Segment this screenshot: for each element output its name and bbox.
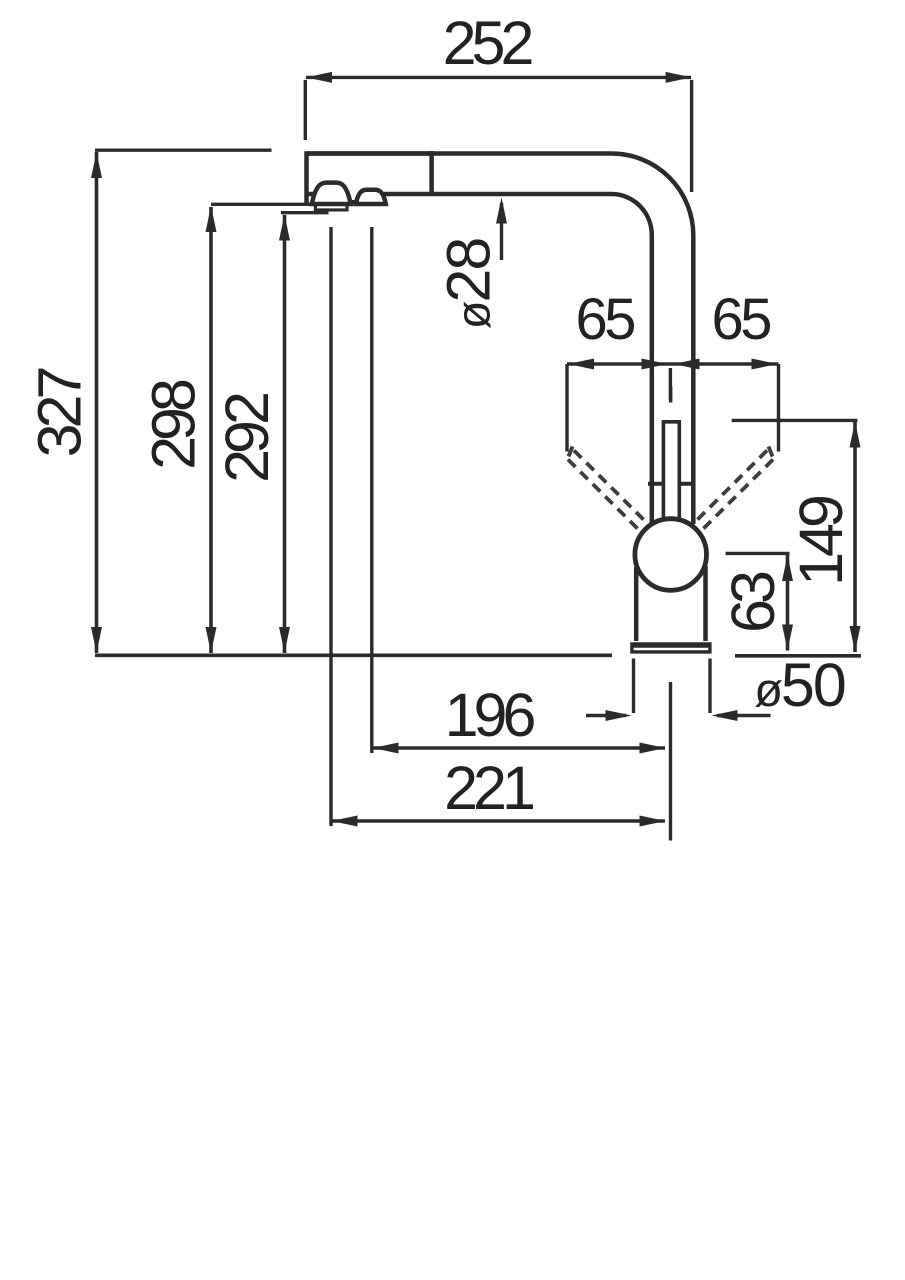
dim 65 arrow center left-pointing <box>674 359 700 370</box>
svg-text:252: 252 <box>443 9 532 77</box>
svg-text:65: 65 <box>711 287 770 352</box>
dim 63 arrow top <box>782 555 793 581</box>
dim 252 ext right <box>690 80 693 192</box>
dashed cap left <box>569 447 573 457</box>
dim o50 arrow left side <box>586 714 626 717</box>
dim o50 ext left stub <box>632 659 635 714</box>
dim 298 arrow top <box>206 206 217 232</box>
base flange <box>630 642 711 653</box>
dim 196 line <box>373 746 666 750</box>
dim 292 line <box>283 215 287 653</box>
spout head block <box>305 151 432 205</box>
dim 298 ext line <box>211 203 313 206</box>
dim 65 line <box>567 362 779 365</box>
body cylinder right line <box>703 566 708 641</box>
aerator dome 2 <box>356 190 386 204</box>
pipe-body joint segment right <box>678 482 696 486</box>
dim 196 arrow left <box>373 743 399 754</box>
dim 327 line <box>95 152 99 653</box>
pipe-body joint segment left <box>648 482 665 486</box>
dashed cap right <box>769 447 773 457</box>
dim 65 arrow far left <box>568 359 594 370</box>
dim 292 ext line <box>281 211 329 214</box>
lever stick <box>663 422 679 518</box>
dim 298 arrow bottom <box>206 627 217 653</box>
center tick above lever <box>669 386 672 403</box>
svg-text:65: 65 <box>575 287 634 352</box>
handle ball <box>635 519 707 591</box>
dim 149 arrow bottom <box>850 626 861 652</box>
dim 292 arrow top <box>279 215 290 241</box>
svg-text:292: 292 <box>213 394 281 483</box>
dim 292 arrow bottom <box>279 627 290 653</box>
ext line B from outlet <box>370 227 373 753</box>
aerator plate <box>314 203 349 212</box>
center stub below base <box>669 682 672 841</box>
dim 65 arrow center right-pointing <box>642 359 668 370</box>
dim 252 ext left <box>304 80 307 140</box>
spout top line and outer curve <box>306 154 693 525</box>
dim 252 arrow left <box>306 72 332 83</box>
dim 196 arrow right <box>640 743 666 754</box>
dim o28 leader arrow <box>500 203 503 260</box>
svg-text:221: 221 <box>444 754 533 822</box>
dim 327 arrow bottom <box>91 627 102 653</box>
dashed lever tilted right <box>698 447 775 529</box>
svg-text:63: 63 <box>719 572 787 633</box>
dim 327 arrow top <box>91 152 102 178</box>
dim o50 ext right stub <box>708 659 711 714</box>
aerator joint segment between domes <box>348 200 359 204</box>
svg-text:327: 327 <box>26 369 94 458</box>
dim 63 ext top <box>726 552 790 555</box>
dim 149 line <box>853 422 857 653</box>
dim o50 arrow right side <box>717 714 771 717</box>
spout bottom line and inner curve <box>384 194 652 525</box>
ext line A from outlet <box>329 227 332 826</box>
dim 327 ext top <box>95 148 272 151</box>
dim 252 arrow right <box>666 72 692 83</box>
dim 221 arrow right <box>640 816 666 827</box>
body cylinder left line <box>634 567 639 641</box>
dim 65 center tick <box>669 368 672 401</box>
aerator dome 1 <box>312 183 351 204</box>
dim 252 line <box>306 76 691 79</box>
dim 149 arrow top <box>850 422 861 448</box>
dim 65 arrow far right <box>752 359 778 370</box>
dim 65 ext right <box>777 364 780 452</box>
dim 65 ext left <box>565 364 568 452</box>
dim 221 arrow left <box>332 816 358 827</box>
dashed lever tilted left <box>567 447 644 529</box>
dim 221 line <box>332 819 666 823</box>
dim 298 line <box>209 207 213 653</box>
svg-text:196: 196 <box>445 681 535 749</box>
dim 63 line <box>786 555 790 651</box>
dim 149 ext top <box>732 419 858 422</box>
dim 63 arrow bottom <box>782 625 793 651</box>
countertop line right <box>735 654 861 658</box>
countertop line left <box>95 653 612 657</box>
svg-text:149: 149 <box>787 496 855 586</box>
svg-text:298: 298 <box>140 380 208 470</box>
